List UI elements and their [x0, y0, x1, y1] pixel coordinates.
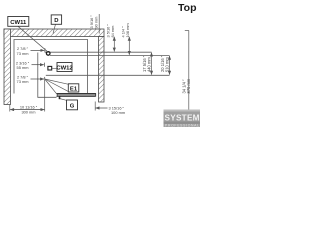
- svg-text:84 mm: 84 mm: [110, 26, 115, 38]
- svg-text:G: G: [70, 103, 75, 109]
- svg-text:510 mm: 510 mm: [165, 57, 170, 72]
- svg-text:SYSTEM: SYSTEM: [165, 113, 200, 122]
- svg-text:Top: Top: [178, 2, 196, 14]
- svg-text:100 mm: 100 mm: [111, 110, 125, 115]
- svg-text:300 mm: 300 mm: [21, 110, 35, 115]
- svg-text:108 mm: 108 mm: [125, 23, 130, 37]
- svg-text:73 mm: 73 mm: [17, 51, 29, 56]
- svg-text:73 mm: 73 mm: [17, 79, 29, 84]
- svg-text:440 mm: 440 mm: [147, 57, 152, 72]
- svg-text:870 mm: 870 mm: [186, 78, 191, 93]
- svg-text:CW12: CW12: [56, 66, 73, 72]
- svg-text:PROFESSIONAL: PROFESSIONAL: [165, 123, 199, 127]
- svg-text:CW11: CW11: [10, 20, 27, 26]
- svg-text:90 mm: 90 mm: [94, 17, 99, 29]
- svg-text:D: D: [54, 18, 58, 24]
- svg-text:E1: E1: [70, 86, 78, 92]
- svg-text:55 mm: 55 mm: [17, 65, 29, 70]
